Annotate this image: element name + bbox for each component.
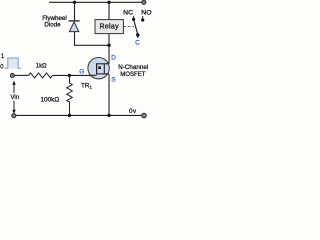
- svg-text:1kΩ: 1kΩ: [36, 64, 47, 70]
- node: gate junction: [68, 74, 71, 77]
- terminal Vin input: [10, 73, 14, 77]
- label Flywheel Diode: [42, 15, 66, 29]
- svg-text:NO: NO: [141, 9, 151, 16]
- label N-Channel MOSFET: [118, 64, 148, 78]
- MOSFET TR1 body circle: [88, 57, 109, 78]
- node: relay junction on +V rail: [107, 1, 110, 4]
- wire top +V rail: [49, 1, 142, 3]
- svg-text:0: 0: [0, 65, 4, 71]
- terminal +V (top right): [142, 0, 146, 4]
- svg-text:S: S: [111, 77, 115, 84]
- wire relay coil top lead: [108, 2, 110, 19]
- terminal bottom left: [12, 114, 16, 118]
- wire NO contact stub: [142, 16, 144, 19]
- relay switch armature: [134, 20, 138, 34]
- svg-text:Vin: Vin: [11, 95, 20, 101]
- pulse waveform fill: [8, 58, 18, 68]
- svg-text:TR1: TR1: [81, 82, 92, 90]
- wire source lead: [108, 74, 110, 116]
- arrow up to Vin terminal: [12, 81, 15, 93]
- node: NC contact: [132, 18, 135, 21]
- svg-text:Diode: Diode: [44, 22, 61, 29]
- arrow down to 0v terminal: [12, 101, 15, 114]
- svg-text:NC: NC: [123, 9, 133, 16]
- svg-text:G: G: [79, 69, 84, 76]
- MOSFET TR1 internal plates: [96, 63, 109, 74]
- resistor R1 1kΩ: [29, 73, 53, 78]
- wire diode anode lead: [74, 32, 76, 46]
- wire resistor to gate: [53, 74, 97, 76]
- diode D1 flywheel: cathode bar: [69, 20, 80, 22]
- wire gate lead inside body: [90, 74, 97, 76]
- node: drain junction: [107, 44, 110, 47]
- resistor R2 100kΩ (vertical): [67, 75, 73, 115]
- wire diode-to-drain horizontal: [74, 44, 109, 46]
- wire C stub: [137, 35, 139, 38]
- node: diode junction on +V rail: [73, 1, 76, 4]
- wire relay coil bottom lead: [108, 34, 110, 46]
- wire NC contact stub: [133, 16, 135, 18]
- pulse waveform trace: [5, 58, 22, 68]
- diode D1 flywheel: triangle: [69, 22, 78, 32]
- MOSFET TR1 substrate dot: [98, 66, 101, 69]
- wire diode cathode lead: [74, 2, 76, 20]
- wire drain lead: [108, 45, 110, 64]
- wire input to resistor: [15, 74, 29, 76]
- terminal 0v (bottom right): [142, 113, 147, 118]
- svg-text:N-Channel: N-Channel: [118, 64, 148, 71]
- relay coil box: [95, 20, 123, 34]
- svg-text:C: C: [135, 40, 140, 47]
- node: common contact C: [136, 33, 139, 36]
- node: NO contact: [141, 18, 144, 21]
- svg-text:100kΩ: 100kΩ: [40, 97, 59, 104]
- svg-text:D: D: [111, 55, 116, 62]
- node: 100k bottom junction: [68, 114, 71, 117]
- svg-text:0v: 0v: [129, 108, 137, 115]
- node: source bottom junction: [107, 114, 110, 117]
- svg-text:Relay: Relay: [99, 23, 119, 30]
- svg-text:1: 1: [1, 54, 5, 60]
- svg-text:MOSFET: MOSFET: [120, 72, 145, 78]
- wire bottom 0v rail: [16, 114, 142, 116]
- relay mechanical link (dashed): [124, 26, 134, 28]
